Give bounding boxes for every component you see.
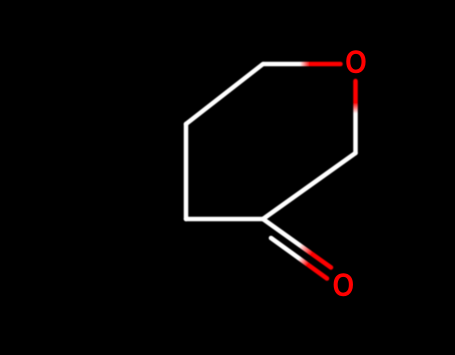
- svg-text:O: O: [345, 45, 367, 80]
- svg-text:O: O: [332, 268, 354, 303]
